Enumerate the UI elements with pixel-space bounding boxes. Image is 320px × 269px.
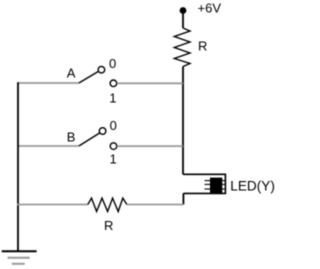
svg-text:+6V: +6V [198, 1, 222, 16]
svg-text:0: 0 [109, 56, 116, 71]
switch B contact 1 [110, 143, 117, 150]
wire switch B contact 1 to right bus [117, 145, 183, 147]
left bus wire (vertical) [17, 82, 19, 251]
svg-text:R: R [198, 38, 207, 53]
wire bottom rail left segment (bus to resistor) [17, 204, 88, 206]
LED pin stub left 1 [205, 180, 211, 182]
wire bottom rail right segment (resistor to LED step) [127, 204, 183, 206]
switch A arm [79, 72, 98, 83]
svg-text:B: B [67, 129, 76, 144]
LED(Y) chip square [210, 178, 222, 193]
node +6V terminal dot [180, 7, 187, 14]
LED pin stub right 1 [222, 180, 225, 182]
svg-text:A: A [67, 66, 76, 81]
ground bar 2 [8, 257, 30, 259]
LED pin stub left 3 [205, 188, 211, 190]
wire from +6V dot down to resistor R (top) [182, 13, 184, 28]
svg-text:R: R [104, 218, 113, 233]
wire switch A pole from left bus [17, 82, 79, 84]
wire right bus from resistor bottom down to LED [182, 67, 184, 175]
resistor R (top, vertical zigzag) [174, 28, 190, 67]
LED(Y) indicator body outline [183, 174, 225, 193]
svg-text:1: 1 [110, 152, 117, 167]
wire step from LED bottom-left down to bottom rail [182, 193, 184, 204]
svg-text:LED(Y): LED(Y) [230, 179, 275, 194]
switch A contact 0 [98, 66, 105, 73]
switch B contact 0 [99, 128, 106, 135]
switch B arm [79, 133, 100, 146]
LED pin stub right 2 [222, 183, 225, 185]
svg-text:1: 1 [109, 90, 116, 105]
LED pin stub right 3 [222, 188, 225, 190]
switch A contact 1 [110, 80, 117, 87]
resistor R (bottom, horizontal zigzag) [88, 198, 127, 211]
ground symbol [2, 250, 37, 252]
LED pin stub left 2 [205, 183, 211, 185]
wire switch B pole from left bus [17, 145, 79, 147]
svg-text:0: 0 [110, 118, 117, 133]
wire switch A contact 1 to right bus [117, 82, 183, 84]
ground bar 3 [12, 263, 25, 265]
